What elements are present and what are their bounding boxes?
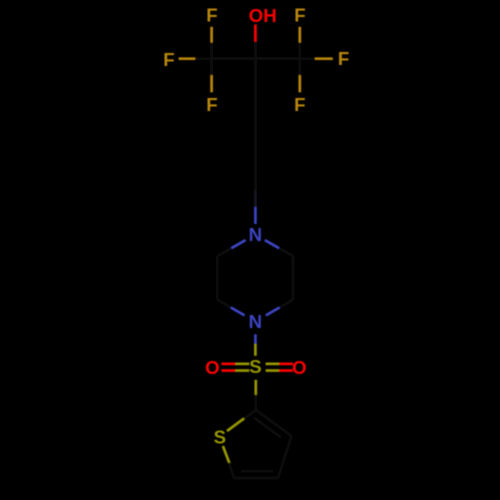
bond C3-N4 N half [231, 308, 245, 316]
bond C2'-S1' C half [242, 410, 256, 420]
S=O right, S half [266, 363, 280, 366]
svg-text:F: F [294, 94, 305, 115]
bond C6-C5 [292, 256, 295, 300]
bond C1-C3 skeleton [255, 57, 299, 60]
bond N1-C6 C half [279, 248, 293, 256]
bond C5-N4 N half [266, 308, 280, 316]
bond N1-C2 C half [217, 248, 231, 256]
chain C1..CH2 carbon bonds [254, 59, 257, 191]
inner line C2'=C3' [254, 418, 281, 438]
bond S1'-C5' C half [229, 463, 234, 478]
bond CH2-N1 C half [254, 191, 257, 208]
bond CH2-N1 N half [254, 207, 257, 224]
svg-text:F: F [294, 5, 305, 26]
bond C2'-S1' S half [227, 418, 244, 431]
bond C4'=C5' [234, 477, 278, 480]
S=O right, O half [279, 363, 293, 366]
S=O left, O half [221, 363, 235, 366]
S=O left, S half [235, 369, 249, 372]
bond C3-F (right CF3, up) F half [298, 27, 301, 43]
bond C3-F (right CF3, down) C half [298, 59, 301, 76]
bond S-C2' C half [254, 395, 257, 410]
bond N4-S N half [254, 334, 257, 344]
bond N1-C6 N half [265, 240, 279, 248]
bond C3-F (right CF3, out) F half [315, 57, 333, 60]
bond C1-O O half [254, 25, 257, 42]
svg-text:F: F [206, 5, 217, 26]
bond C2'=C3' [256, 410, 292, 436]
bond S1'-C5' S half [223, 446, 230, 464]
svg-text:N: N [249, 224, 262, 245]
svg-text:N: N [249, 311, 262, 332]
bond C3-N4 C half [217, 300, 231, 308]
bond C3-F (right CF3, up) C half [298, 43, 301, 59]
S=O right, S half [266, 369, 280, 372]
svg-text:S: S [214, 426, 226, 447]
inner line C4'=C5' [241, 470, 273, 473]
bond C2-F (left CF3, out) C half [195, 57, 211, 60]
svg-text:S: S [249, 356, 261, 377]
svg-text:F: F [338, 48, 349, 69]
bond C5-N4 C half [280, 300, 294, 308]
bond N1-C2 N half [231, 240, 245, 248]
bond C3-F (right CF3, down) F half [298, 75, 301, 92]
S=O left, S half [235, 363, 249, 366]
bond C2-F (left CF3, down) C half [210, 59, 213, 76]
bond N4-S S half [254, 344, 257, 356]
bond C1-O C half [254, 42, 257, 59]
bond C2-C3 [216, 256, 219, 300]
S=O left, O half [221, 369, 235, 372]
bond C2-F (left CF3, out) F half [179, 57, 196, 60]
bond C2-F (left CF3, up) C half [210, 43, 213, 59]
bond C2-F (left CF3, down) F half [210, 75, 213, 92]
svg-text:OH: OH [249, 5, 277, 26]
svg-text:F: F [206, 94, 217, 115]
svg-text:O: O [292, 357, 306, 378]
bond S-C2' S half [254, 380, 257, 395]
bond C3'-C4' [278, 436, 291, 478]
bond C3-F (right CF3, out) C half [300, 57, 315, 60]
svg-text:O: O [205, 357, 219, 378]
S=O right, O half [279, 369, 293, 372]
svg-text:F: F [163, 49, 174, 70]
bond C2-F (left CF3, up) F half [210, 27, 213, 43]
bond C2-C1 skeleton [212, 57, 256, 60]
